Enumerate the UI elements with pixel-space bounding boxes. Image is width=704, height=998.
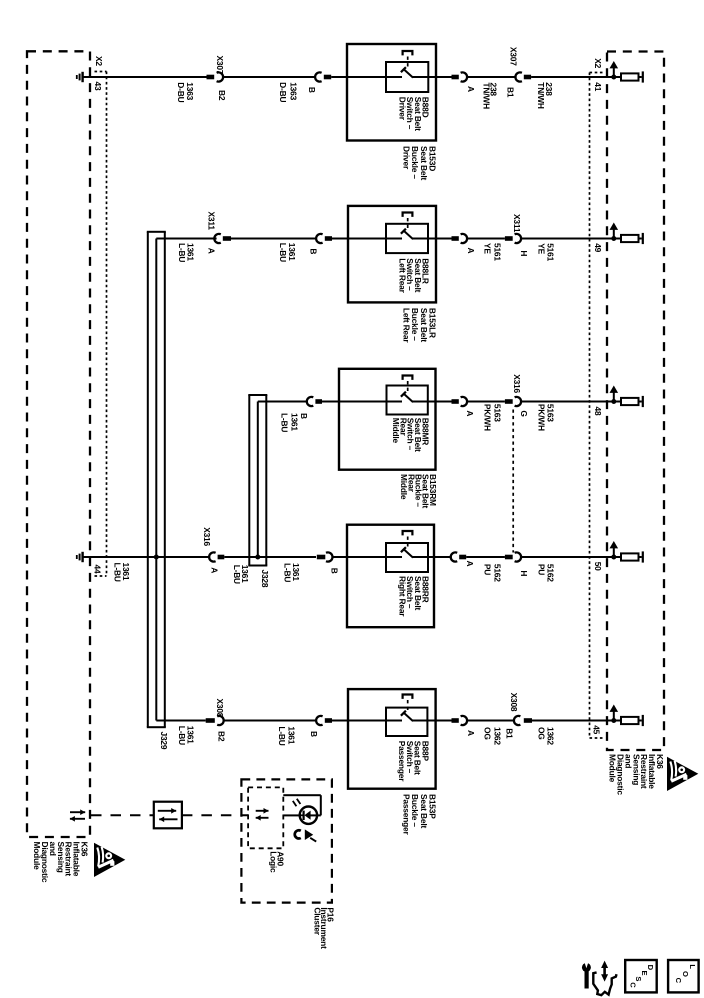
splice pack J328 — [248, 395, 250, 566]
in-line connector X316 (row4) female terminal — [515, 552, 521, 561]
wire 1361 L-BU: J329 to X311 — [156, 238, 216, 240]
wire 5161 YE: X311 to K36 pin 49 — [521, 238, 621, 240]
svg-text:J329: J329 — [159, 732, 169, 750]
in-line connector X307 (left) female terminal — [217, 72, 223, 81]
svg-text:PK/WH: PK/WH — [536, 404, 546, 431]
svg-text:45: 45 — [592, 725, 602, 734]
svg-text:G: G — [519, 410, 529, 416]
in-line connector X316 (row4) male pin — [505, 555, 513, 560]
svg-text:A: A — [466, 86, 476, 92]
switch actuator bracket — [403, 213, 413, 217]
wire inside J329 — [155, 239, 157, 721]
wire 1361 L-BU: X316 to B88RR — [224, 556, 316, 558]
B88RR pin A male pin — [459, 555, 466, 560]
switch actuator dashed link — [407, 381, 409, 394]
seat belt reminder icon — [295, 830, 301, 838]
svg-text:O: O — [681, 971, 690, 977]
switch blade contact — [403, 549, 413, 558]
svg-text:1362: 1362 — [492, 727, 502, 745]
connector X2 face (left, dotted line with pins 43/44) — [95, 71, 107, 73]
svg-text:1363: 1363 — [288, 82, 298, 100]
switch actuator dashed link — [407, 537, 409, 550]
legend icon: connector body — [593, 972, 616, 995]
svg-text:41: 41 — [593, 82, 603, 91]
B88LR connector male pin B — [325, 236, 332, 241]
svg-text:Left Rear: Left Rear — [402, 308, 412, 343]
B88P connector male pin B — [325, 718, 332, 723]
svg-text:B2: B2 — [217, 731, 227, 742]
wire 1361 L-BU: X311 to B88LR — [231, 238, 317, 240]
in-line connector X311 male pin — [223, 236, 231, 241]
svg-text:L-BU: L-BU — [232, 565, 242, 584]
B88LR pin A female terminal — [461, 234, 467, 243]
svg-text:E: E — [640, 971, 649, 976]
junction J329/right-rear ground wire — [154, 555, 159, 560]
svg-text:PK/WH: PK/WH — [483, 404, 493, 431]
in-line connector X311 (right) female terminal — [515, 234, 521, 243]
switch actuator dashed link — [407, 57, 409, 70]
svg-text:C: C — [674, 978, 683, 984]
svg-text:L-BU: L-BU — [278, 243, 288, 262]
K36 buckle sense circuit: arrow and resistor (row 2) — [611, 236, 616, 241]
indicator lamp: seat belt telltale (LED) — [300, 807, 317, 824]
svg-text:C: C — [628, 982, 637, 988]
svg-text:Left Rear: Left Rear — [397, 258, 407, 293]
svg-text:Right Rear: Right Rear — [397, 576, 407, 617]
ground G (driver buckle circuit) — [81, 72, 83, 82]
B88D pin A female terminal — [461, 72, 467, 81]
serial data wire (dashed): K36 to P16 — [91, 814, 154, 816]
in-line connector X311 female terminal — [214, 234, 220, 243]
svg-text:L-BU: L-BU — [177, 726, 187, 745]
wire 238 TN/WH: B88D to X307 — [467, 76, 517, 78]
svg-text:50: 50 — [593, 562, 603, 571]
switch blade contact — [403, 712, 413, 721]
ground G (right rear buckle circuit) — [81, 552, 83, 562]
SIR caution triangle symbol (right) — [667, 757, 698, 791]
switch actuator bracket — [403, 531, 413, 535]
svg-text:Cluster: Cluster — [312, 907, 322, 935]
legend icon: double arrow — [603, 966, 606, 978]
svg-text:44: 44 — [93, 565, 103, 574]
wire 5162 PU: X316 to K36 pin 50 — [521, 556, 621, 558]
serial data bidirectional arrows (A90) — [256, 810, 269, 812]
wire inside J328 — [257, 402, 259, 559]
wire 1361 L-BU: J328 to connector — [258, 401, 308, 403]
wire 1361 L-BU: J329 to X308 — [156, 720, 205, 722]
svg-text:X311: X311 — [512, 214, 522, 233]
svg-text:A: A — [466, 248, 476, 254]
wire 5163 PK/WH: B88MR to X316 — [467, 401, 505, 403]
svg-text:B: B — [299, 413, 309, 419]
svg-text:1361: 1361 — [287, 726, 297, 744]
switch blade contact — [403, 230, 413, 239]
in-line connector X307 (right) male pin — [524, 75, 531, 80]
connector X2 face (right, dotted line pins 41/49/48/50/45) — [590, 72, 605, 74]
wire: through switch box — [348, 720, 402, 722]
in-line connector X308 (right) female terminal — [514, 716, 520, 725]
svg-text:D-BU: D-BU — [278, 82, 288, 102]
switch actuator dashed link — [407, 700, 409, 713]
wire: through switch box — [347, 556, 402, 558]
logic block A90 (dashed box) — [248, 787, 283, 848]
wire 5161 YE: B88LR to X311 — [467, 238, 505, 240]
in-line connector X316 female terminal — [515, 397, 521, 406]
K36 buckle sense circuit: arrow and resistor (row 4) — [611, 555, 616, 560]
wire into B88P — [332, 720, 348, 722]
wire 1361 L-BU: ground to X316 — [83, 556, 210, 558]
module K36 Inflatable Restraint Sensing and Diagnostic Module (right dashed box) — [607, 52, 664, 751]
svg-text:A: A — [210, 567, 220, 573]
switch B88MR Seat Belt Switch - Rear Middle — [339, 369, 436, 470]
svg-text:Driver: Driver — [402, 146, 412, 170]
svg-text:Logic: Logic — [269, 851, 279, 873]
svg-text:X311: X311 — [207, 212, 217, 231]
switch actuator bracket — [403, 376, 413, 380]
switch actuator dashed link — [407, 218, 409, 231]
svg-text:5161: 5161 — [492, 243, 502, 261]
svg-text:B2: B2 — [217, 90, 227, 101]
wire: A90 to seat belt indicator — [283, 814, 300, 816]
wire 238 TN/WH: X307 to K36 pin 41 — [531, 76, 621, 78]
svg-text:D-BU: D-BU — [176, 82, 186, 102]
in-line connector X316 male pin — [505, 399, 513, 404]
wire 5162 PU: B88RR to X316 — [466, 556, 505, 558]
svg-text:X316: X316 — [512, 374, 522, 393]
splice pack J329 — [147, 232, 149, 727]
wire 1362 OG: X308 to K36 pin 45 — [532, 720, 621, 722]
svg-text:OG: OG — [483, 727, 493, 740]
svg-text:A: A — [465, 410, 475, 416]
svg-text:OG: OG — [536, 727, 546, 740]
B88MR pin A male pin — [436, 401, 452, 403]
B88D connector female terminal — [315, 72, 321, 81]
wire into B88MR — [322, 401, 339, 403]
B88MR connector female terminal — [307, 397, 313, 406]
svg-text:B1: B1 — [506, 87, 516, 98]
svg-text:L: L — [688, 964, 697, 969]
svg-text:49: 49 — [593, 243, 603, 252]
switch actuator bracket — [403, 695, 413, 699]
svg-text:H: H — [519, 250, 529, 256]
svg-text:TN/WH: TN/WH — [481, 83, 491, 110]
svg-text:Module: Module — [608, 754, 618, 783]
svg-text:YE: YE — [536, 243, 546, 254]
SIR caution triangle symbol (left) — [94, 843, 125, 877]
svg-text:A: A — [466, 730, 476, 736]
svg-text:L-BU: L-BU — [177, 243, 187, 262]
switch B88RR Seat Belt Switch - Right Rear — [347, 525, 434, 628]
wire 5163 PK/WH: X316 to K36 pin 48 — [521, 401, 621, 403]
svg-text:J328: J328 — [260, 570, 270, 588]
serial data bidirectional arrows (K36) — [70, 811, 85, 813]
svg-text:L-BU: L-BU — [113, 563, 123, 582]
svg-text:5163: 5163 — [492, 404, 502, 422]
junction J328/right-rear ground wire — [255, 555, 260, 560]
B88D pin A male pin — [436, 76, 452, 78]
svg-text:L-BU: L-BU — [280, 413, 290, 432]
svg-text:A: A — [207, 248, 217, 254]
in-line connector X308 (right) male pin — [524, 718, 532, 723]
switch B88P Seat Belt Switch - Passenger — [348, 689, 436, 789]
switch B88LR Seat Belt Switch - Left Rear — [348, 206, 436, 303]
in-line connector X307 (right) female terminal — [515, 72, 521, 81]
B88RR connector male pin B — [317, 555, 326, 560]
svg-text:Middle: Middle — [399, 474, 409, 500]
svg-text:X307: X307 — [215, 56, 225, 75]
B88D connector male pin B — [324, 75, 331, 80]
B88MR pin A female terminal — [461, 397, 467, 406]
svg-text:YE: YE — [483, 243, 493, 254]
svg-text:S: S — [634, 976, 643, 981]
svg-text:B1: B1 — [505, 728, 515, 739]
svg-text:Driver: Driver — [397, 97, 407, 121]
svg-text:X307: X307 — [509, 47, 519, 66]
svg-text:Module: Module — [32, 842, 42, 871]
B88RR connector female terminal — [326, 552, 332, 561]
K36 buckle sense circuit: arrow and resistor (row 5) — [611, 718, 616, 723]
svg-text:H: H — [519, 570, 529, 576]
svg-text:B: B — [309, 248, 319, 254]
in-line connector X308 (left) female terminal — [217, 716, 223, 725]
B88LR pin A male pin — [436, 238, 452, 240]
module P16 Instrument Cluster (dashed box) — [241, 779, 332, 902]
svg-text:X2: X2 — [94, 56, 104, 66]
gateway symbol: boxed serial data arrows — [154, 802, 182, 829]
B88LR connector female terminal — [316, 234, 322, 243]
in-line connector X308 (left) male pin — [206, 718, 215, 723]
svg-text:43: 43 — [93, 82, 103, 91]
svg-text:X2: X2 — [593, 58, 603, 68]
svg-text:X308: X308 — [509, 693, 519, 712]
svg-text:Passenger: Passenger — [402, 794, 412, 836]
legend icon: DESC box — [625, 960, 657, 992]
svg-text:1361: 1361 — [290, 413, 300, 431]
wire 1362 OG: B88P to X308 — [467, 720, 515, 722]
in-line connector X311 (right) male pin — [505, 236, 513, 241]
switch blade contact — [403, 69, 413, 78]
svg-text:5162: 5162 — [492, 564, 502, 582]
in-line connector X316 (left) male pin — [218, 555, 225, 560]
wire 1363 D-BU: ground to X307 — [83, 76, 207, 78]
switch actuator bracket — [403, 51, 413, 55]
svg-text:A: A — [465, 561, 475, 567]
light rays of indicator — [293, 801, 297, 806]
wire 1363 D-BU: X307 to B88D pin B — [223, 76, 316, 78]
legend icon: LOC box — [668, 960, 699, 992]
B88RR pin A female terminal — [434, 556, 452, 558]
svg-text:PU: PU — [483, 564, 493, 575]
svg-text:48: 48 — [593, 407, 603, 416]
svg-text:B: B — [307, 87, 317, 93]
wire into B88LR — [332, 238, 348, 240]
svg-text:B: B — [309, 731, 319, 737]
svg-text:TN/WH: TN/WH — [536, 82, 546, 109]
svg-text:X316: X316 — [202, 527, 212, 546]
B88P pin A male pin — [436, 720, 452, 722]
svg-text:B: B — [330, 568, 340, 574]
B88P connector female terminal — [316, 716, 322, 725]
B88P pin A female terminal — [461, 716, 467, 725]
svg-text:L-BU: L-BU — [277, 726, 287, 745]
switch B88D Seat Belt Switch - Driver — [347, 44, 436, 141]
svg-text:PU: PU — [536, 564, 546, 575]
in-line connector X316 (left) female terminal — [209, 552, 215, 561]
B88MR connector male pin B — [315, 399, 322, 404]
module K36 Inflatable Restraint Sensing and Diagnostic Module (left dashed box) — [27, 51, 90, 837]
K36 buckle sense circuit: arrow and resistor (row 3) — [611, 399, 616, 404]
wire: through switch box — [347, 76, 402, 78]
connector X316 face (dotted link rows 3-4) — [512, 410, 514, 553]
wire: through switch box — [339, 401, 402, 403]
svg-text:L-BU: L-BU — [283, 563, 293, 582]
svg-text:X308: X308 — [215, 699, 225, 718]
wire 1361 L-BU: X308 to B88P — [223, 720, 317, 722]
in-line connector X307 (left) male pin — [207, 75, 215, 80]
legend icon: wrench — [582, 963, 591, 972]
switch blade contact — [403, 393, 413, 402]
K36 buckle sense circuit: arrow and resistor (row 1) — [611, 75, 616, 80]
wire: through switch box — [348, 238, 402, 240]
wire into B88RR — [332, 556, 347, 558]
svg-text:Passenger: Passenger — [397, 741, 407, 783]
wire into B88D — [331, 76, 347, 78]
svg-text:Middle: Middle — [391, 418, 401, 444]
